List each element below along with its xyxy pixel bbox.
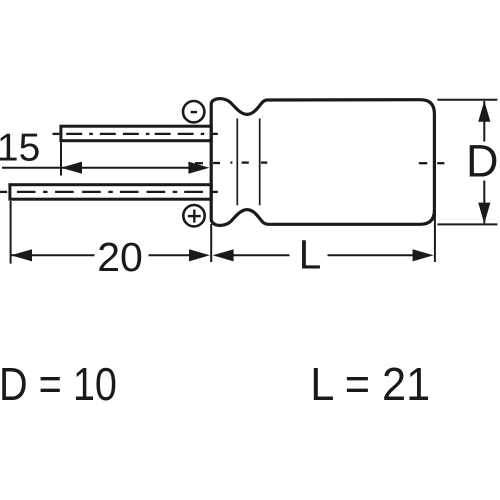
arrowhead D up: [478, 101, 490, 122]
svg-text:D: D: [466, 135, 499, 186]
lead top centerline: [53, 133, 218, 135]
dim D arrow shaft: [483, 101, 485, 223]
svg-text:D = 10: D = 10: [0, 358, 117, 410]
capacitor body C1 outline: [211, 99, 434, 226]
minus polarity mark: [183, 101, 204, 122]
svg-text:15: 15: [0, 126, 40, 169]
lead wire top (negative): [61, 126, 211, 141]
arrowhead D down: [478, 203, 490, 224]
arrowhead 15 right: [188, 162, 209, 174]
arrowhead 20 right: [189, 249, 210, 261]
shared extension line below body: [210, 224, 212, 262]
dim 15 extension line: [60, 142, 62, 175]
arrowhead L right: [413, 249, 434, 261]
dim 15 line: [2, 167, 190, 169]
svg-text:L = 21: L = 21: [310, 358, 430, 410]
dim L line: [233, 254, 413, 256]
dim D extension line bottom: [437, 223, 497, 225]
body center axis dash-dot: [195, 161, 444, 164]
svg-text:20: 20: [97, 234, 143, 280]
lead wire bottom (positive): [10, 185, 211, 200]
arrowhead L left: [213, 249, 234, 261]
plus polarity mark: [183, 205, 204, 226]
svg-text:L: L: [299, 231, 322, 277]
dim 20 extension line left: [10, 201, 12, 264]
dim 20 line: [11, 254, 190, 256]
arrowhead 15 left: [61, 162, 82, 174]
dim D extension line top: [437, 99, 497, 101]
arrowhead 20 left: [11, 249, 32, 261]
lead bottom centerline: [0, 191, 218, 193]
body sleeve edge line right: [259, 119, 261, 206]
dim L extension line right: [434, 209, 436, 262]
body sleeve edge line left: [236, 119, 238, 206]
